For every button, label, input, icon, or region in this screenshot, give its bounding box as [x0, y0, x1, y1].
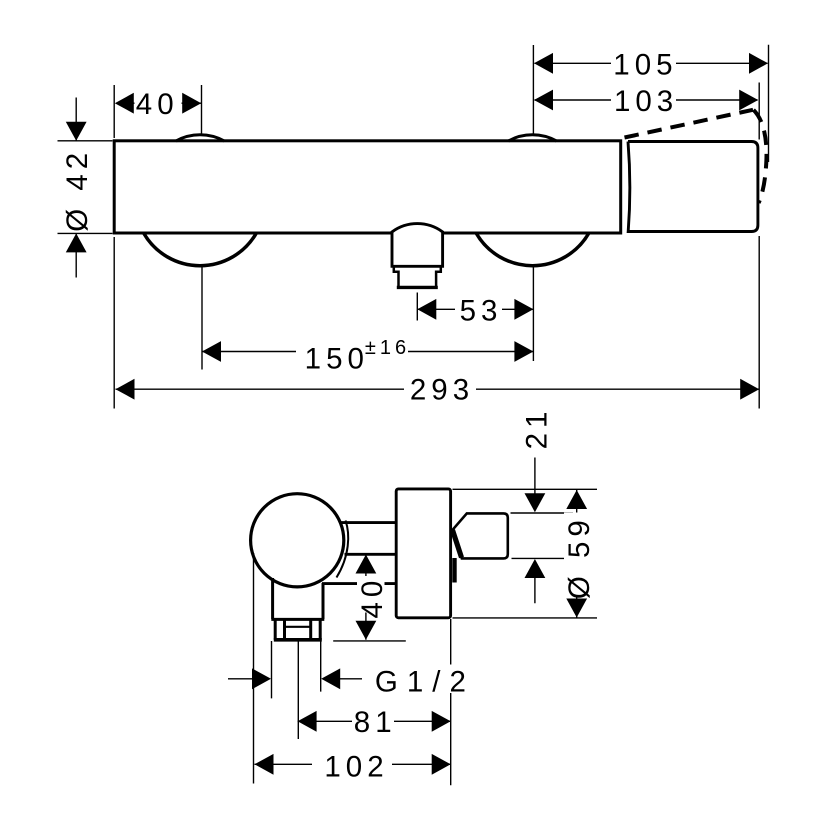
dimension 53 line	[417, 308, 533, 310]
lever lower strip	[452, 558, 456, 583]
dimension D59 arrows	[566, 490, 587, 618]
label D59	[564, 513, 591, 598]
label 40 side	[357, 576, 385, 613]
body circle back edge	[337, 521, 349, 578]
union nut inner edge	[285, 626, 311, 628]
dimension D42 line	[75, 98, 77, 278]
dimension 81 line	[298, 720, 451, 722]
svg-text:40: 40	[136, 88, 179, 121]
arm lower line	[345, 553, 397, 556]
label 102	[312, 751, 392, 778]
dimension 150 extension line	[201, 265, 203, 370]
dimension 150 line	[202, 351, 533, 353]
dimension 40 side line	[365, 555, 367, 640]
dimension 40 side extension line	[333, 640, 406, 642]
dimension 103 extension line right	[758, 83, 760, 140]
dimension D59 extension lines	[453, 489, 598, 618]
union nut bottom	[274, 638, 322, 642]
dimension 21 arrows	[525, 493, 546, 578]
svg-text:293: 293	[410, 374, 474, 407]
svg-text:102: 102	[324, 751, 388, 784]
dimension D42 extension lines	[58, 141, 113, 234]
svg-text:Ø 59: Ø 59	[563, 515, 596, 599]
G12 extension lines	[272, 641, 321, 739]
dimension 102 extension line left	[253, 553, 255, 784]
dimension 102 arrows	[255, 754, 451, 775]
svg-text:81: 81	[354, 706, 397, 739]
union nut facets	[285, 621, 311, 639]
handle rotated position dashed arc	[754, 110, 767, 203]
outlet body with dome	[392, 224, 443, 267]
mixer body	[114, 141, 621, 233]
label 150 pm16	[296, 336, 408, 371]
dimension G12 line	[228, 678, 362, 680]
arm top line	[339, 521, 396, 524]
dimension 150 arrows	[202, 341, 533, 362]
dimension 40 top line	[116, 102, 201, 104]
escutcheon 2 bottom arc	[476, 233, 589, 266]
valve body	[271, 578, 324, 619]
lever side view	[453, 513, 508, 558]
body circle	[251, 494, 344, 587]
label 293	[404, 376, 476, 403]
dimension 40 side arrows	[356, 555, 377, 640]
label 53	[455, 297, 502, 322]
svg-text:21: 21	[521, 407, 554, 450]
dimension 103 arrows	[534, 90, 758, 111]
dimension G12 arrows	[252, 668, 340, 689]
label 103	[611, 88, 676, 113]
svg-text:40: 40	[356, 576, 389, 619]
dimension 21 line	[534, 458, 536, 604]
svg-text:53: 53	[460, 294, 503, 327]
dimension D42 arrows	[66, 122, 87, 253]
dimension 40 arrows	[115, 93, 201, 114]
dimension 105 line	[535, 62, 768, 64]
dimension 293 line	[116, 388, 760, 390]
dimension 81 arrows	[298, 711, 451, 732]
dimension D59 line	[576, 490, 578, 618]
lever neck line	[453, 530, 462, 558]
escutcheon 2 top arc	[508, 135, 556, 141]
svg-text:±16: ±16	[365, 337, 410, 359]
label 105	[611, 51, 676, 76]
dimension 102 line	[255, 763, 451, 765]
svg-text:105: 105	[613, 49, 677, 82]
dimension 21 extension lines	[511, 513, 574, 558]
svg-text:150: 150	[305, 342, 369, 375]
dimension 81 extension line right	[450, 619, 452, 785]
outlet nut bottom	[397, 286, 438, 289]
svg-text:103: 103	[614, 85, 678, 118]
dimension 103 line	[535, 99, 758, 101]
label 40 top	[135, 91, 182, 116]
dimension 53 extension lines	[417, 267, 533, 361]
dimension 53 arrows	[417, 299, 533, 320]
label D42	[63, 146, 91, 228]
dimension 105 extension lines	[533, 45, 768, 162]
dimension 293 arrows	[116, 379, 760, 400]
arm bottom line	[322, 582, 396, 585]
label G12	[372, 665, 469, 694]
dimension 40 top extension lines	[114, 85, 201, 138]
union nut	[275, 620, 320, 640]
svg-text:Ø 42: Ø 42	[61, 148, 94, 232]
handle (lever cap)	[628, 142, 758, 232]
label 81	[352, 708, 394, 735]
svg-text:G1/2: G1/2	[375, 665, 475, 698]
wall plate	[396, 489, 450, 618]
dimension 293 extension lines	[114, 236, 759, 409]
outlet step and nut	[394, 266, 441, 287]
handle rotated position dashed line	[625, 110, 754, 138]
escutcheon 1 top arc	[176, 135, 224, 141]
escutcheon 1 bottom arc	[144, 233, 257, 266]
dimension 105 arrows	[534, 53, 768, 74]
